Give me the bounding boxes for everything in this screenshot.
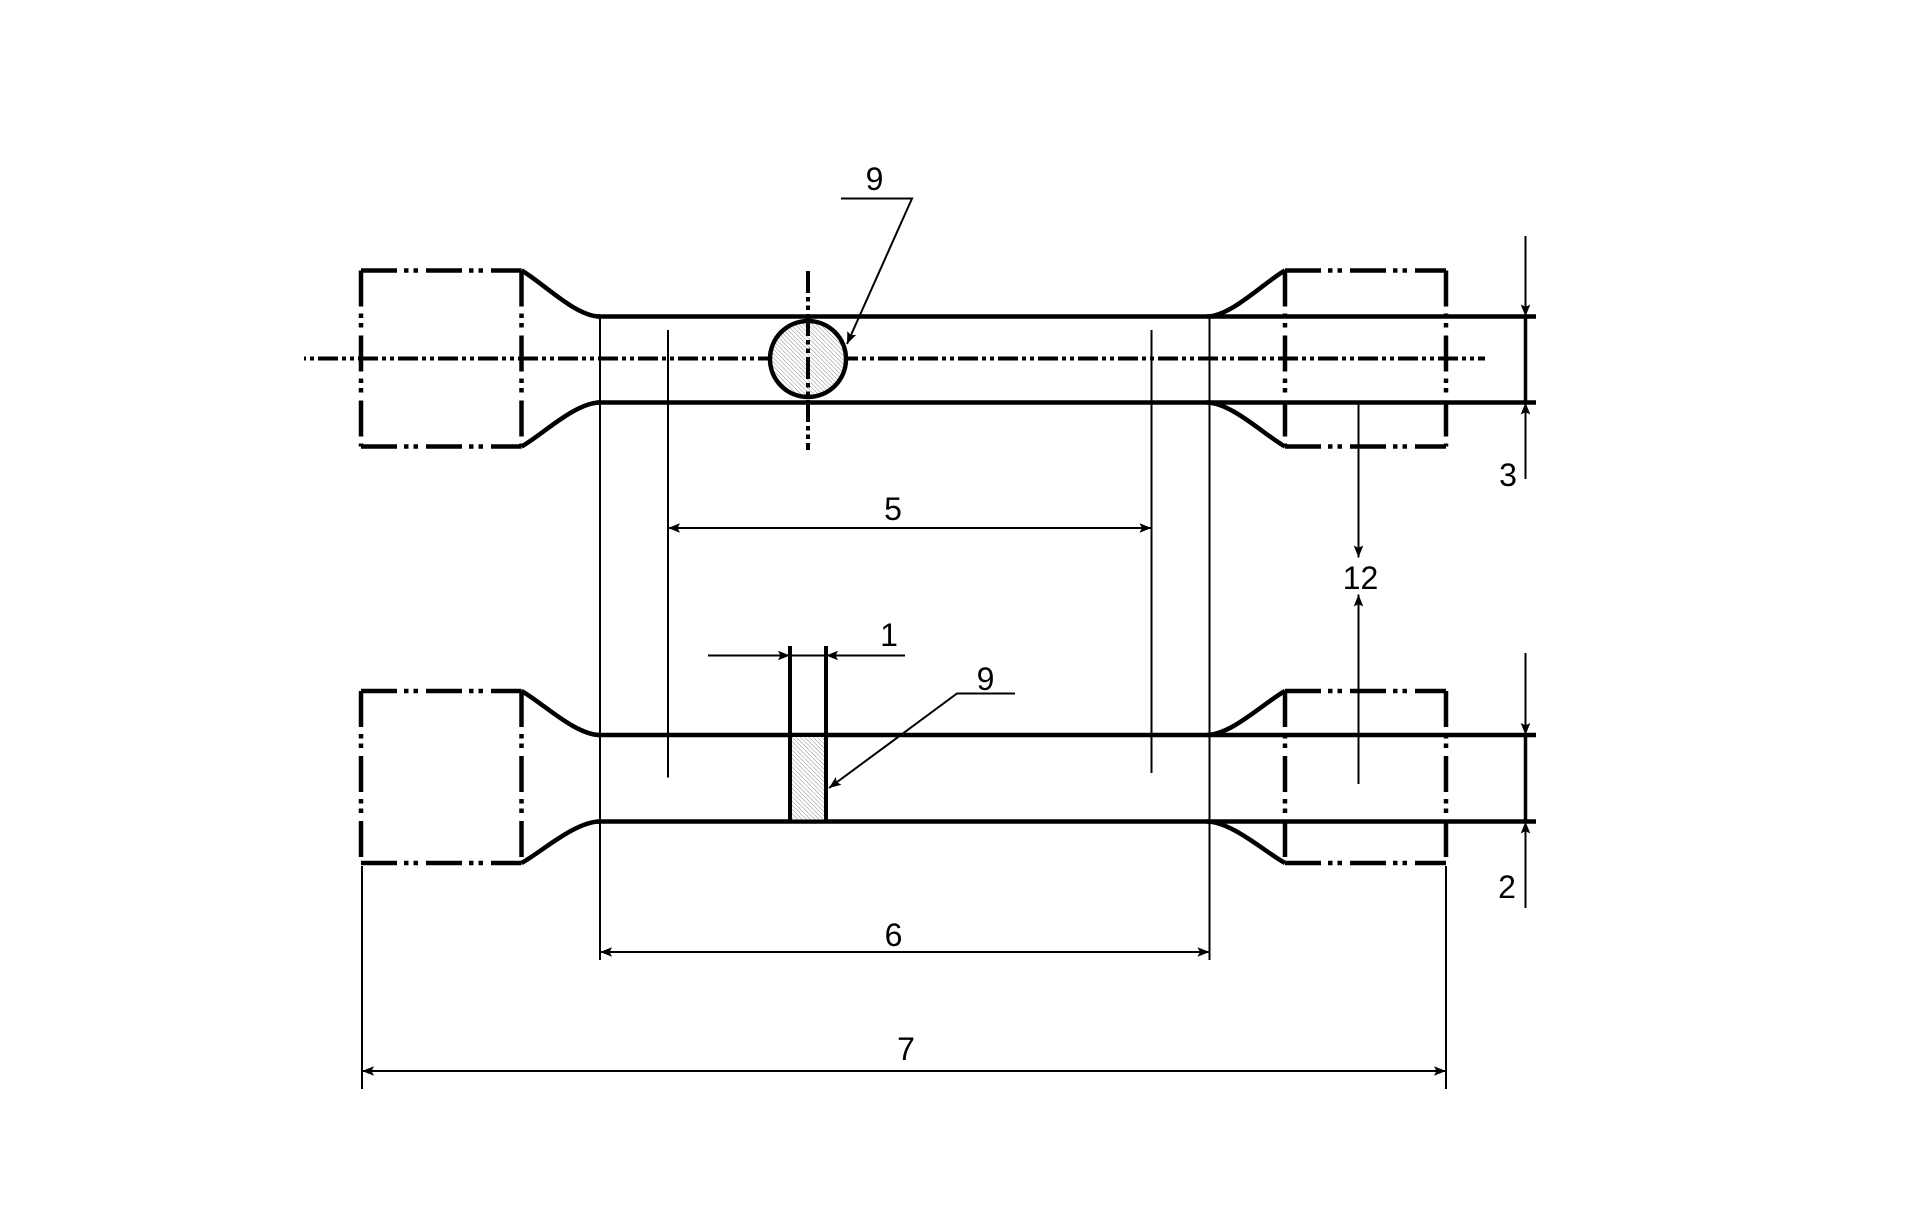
dim 5 line	[668, 527, 1152, 529]
svg-text:7: 7	[897, 1031, 915, 1067]
svg-text:3: 3	[1499, 457, 1517, 493]
svg-text:2: 2	[1498, 869, 1516, 905]
fillet top-right upper	[1207, 271, 1286, 317]
fillet bottom-left lower	[522, 822, 601, 864]
svg-text:9: 9	[866, 161, 884, 197]
weld circle (hatched)	[770, 321, 846, 397]
dim 12 line lower	[1358, 595, 1360, 785]
grip rect bottom-left (phantom)	[361, 691, 522, 863]
svg-text:12: 12	[1343, 560, 1379, 596]
leader 9 top	[841, 199, 912, 345]
wire top gauge line	[597, 314, 1536, 319]
leader 9 bottom	[829, 694, 1015, 789]
fillet top-left lower	[522, 403, 601, 447]
dim 6 extension left	[599, 317, 601, 961]
weld notch right wall	[824, 646, 828, 822]
weld notch hatched fill	[792, 737, 824, 820]
dim 5 extension left	[667, 330, 669, 778]
dim 7 line	[362, 1070, 1446, 1072]
dim 5 extension right	[1151, 330, 1153, 773]
wire top gauge line bottom view	[597, 733, 1536, 738]
centerline top view	[304, 357, 1485, 361]
dim 2 line	[1525, 653, 1527, 908]
dim 3 line	[1525, 236, 1527, 479]
svg-text:6: 6	[885, 917, 903, 953]
fillet top-right lower	[1207, 403, 1286, 447]
dim 6 extension right	[1209, 317, 1211, 961]
vertical centerline at circle	[806, 271, 810, 450]
dim 12 line upper	[1358, 403, 1360, 558]
specimen top outline	[522, 271, 1537, 447]
fillet bottom-right upper	[1207, 691, 1286, 735]
svg-text:1: 1	[880, 617, 898, 653]
svg-text:5: 5	[884, 491, 902, 527]
dim 1 line	[708, 655, 905, 657]
fillet bottom-left upper	[522, 691, 601, 735]
grip rect top-right (phantom)	[1285, 271, 1446, 447]
fillet bottom-right lower	[1207, 822, 1286, 864]
wire bottom gauge line bottom view	[597, 819, 1536, 824]
dim 7 extension left	[361, 866, 363, 1089]
svg-text:9: 9	[977, 661, 995, 697]
dim 7 extension right	[1445, 866, 1447, 1089]
dim 6 line	[600, 951, 1210, 953]
fillet top-left upper	[522, 271, 601, 317]
wire bottom gauge line	[597, 400, 1536, 405]
specimen bottom outline	[522, 691, 1537, 863]
grip rect bottom-right (phantom)	[1285, 691, 1446, 863]
grip rect top-left (phantom)	[361, 271, 522, 447]
weld notch left wall	[788, 646, 792, 822]
